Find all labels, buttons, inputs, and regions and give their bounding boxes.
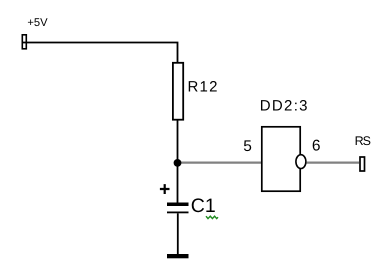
wire node A to gate input pin 5 [179,162,262,164]
svg-text:R12: R12 [188,78,219,95]
wire capacitor C1 to ground [177,213,179,254]
terminal +5V [22,35,26,49]
capacitor plus polarity mark [160,184,170,194]
terminal RS [360,157,365,171]
svg-text:C1: C1 [191,195,216,217]
svg-text:RS: RS [355,134,371,148]
capacitor C1 bottom plate [167,212,189,214]
wire from +5V terminal to resistor R12 [23,43,178,63]
node A junction dot [174,159,182,167]
wire bubble to RS terminal [307,162,360,164]
spellcheck squiggle under C1 [206,216,218,218]
svg-text:+5V: +5V [27,17,48,29]
wire resistor to node A [177,121,179,164]
resistor R12 [173,63,183,120]
inverter DD2:3 body [262,127,300,191]
capacitor C1 top plate [167,203,189,207]
svg-text:DD2:3: DD2:3 [260,97,309,114]
inversion bubble on gate output [296,155,306,169]
wire node A to capacitor C1 [177,163,179,203]
ground bar [167,254,189,258]
svg-text:5: 5 [243,138,252,155]
svg-text:6: 6 [312,138,321,155]
